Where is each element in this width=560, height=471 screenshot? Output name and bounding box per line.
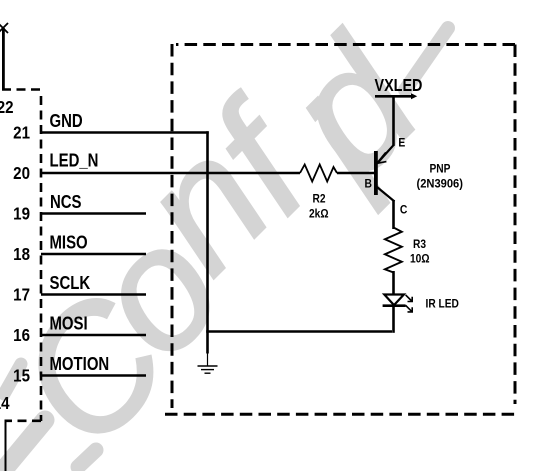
svg-text:18: 18 [13,244,30,265]
svg-text:IR LED: IR LED [426,298,459,311]
no-connect X on pin 22 wire [0,23,8,33]
ground symbol [198,353,218,373]
wire R2 to base [337,172,374,175]
svg-text:2kΩ: 2kΩ [309,208,329,221]
wire GND pin 21 horizontal [41,131,209,134]
wire LED cathode to bottom return [392,306,395,333]
IC U1 outline right edge (dashed) [40,96,43,421]
resistor R3 zigzag (vertical) [385,228,402,273]
svg-text:R2: R2 [313,193,326,206]
svg-text:PNP: PNP [430,163,451,176]
transistor Q1 PNP 2N3906 [374,145,395,202]
svg-text:20: 20 [13,163,30,184]
wire NCS pin 19 [41,212,146,215]
wire VXLED to emitter [392,96,395,146]
IR LED D1 (triangle + cathode bar) [383,295,406,306]
svg-text:B: B [365,178,373,191]
svg-text:15: 15 [13,365,30,386]
wire MOSI pin 16 [41,334,146,337]
svg-text:22: 22 [0,97,14,118]
svg-text:14: 14 [0,393,10,414]
wire MISO pin 18 [41,253,146,256]
svg-text:LED_N: LED_N [50,150,99,171]
svg-text:MOSI: MOSI [50,313,88,334]
wire MOTION pin 15 [41,374,146,377]
wire LED_N pin 20 to R2 [41,172,300,175]
watermark Confidential [0,0,560,1]
LED emission arrow 1 [406,295,413,302]
svg-text:VXLED: VXLED [375,76,423,96]
svg-text:MOTION: MOTION [50,354,110,375]
wire R3 to LED anode [392,271,395,295]
svg-text:E: E [398,137,405,150]
resistor R2 zigzag [300,165,337,182]
LED emission arrow 2 [406,305,413,312]
IC U1 outline top edge (dashed) [2,88,42,91]
wire SCLK pin 17 [41,293,146,296]
svg-text:19: 19 [13,203,30,224]
wire pin 22 vertical [2,28,5,90]
svg-text:21: 21 [13,122,30,143]
wire collector down to R3 [392,200,395,229]
IC U1 outline bottom edge (dashed) [5,419,42,422]
svg-text:GND: GND [50,111,83,132]
svg-text:C: C [400,204,408,217]
wire GND vertical down to ground [206,131,209,353]
svg-text:10Ω: 10Ω [410,253,430,266]
svg-text:16: 16 [13,325,30,346]
svg-text:(2N3906): (2N3906) [417,178,464,190]
VXLED power rail bar [375,93,417,99]
wire bottom return (LED cathode to ground node) [206,330,392,333]
svg-text:17: 17 [13,284,30,305]
svg-text:NCS: NCS [50,192,82,213]
IC U1 outline bottom-left edge going down [5,420,7,471]
svg-text:SCLK: SCLK [50,273,91,294]
svg-text:R3: R3 [413,238,426,251]
svg-text:MISO: MISO [50,232,88,253]
dashed enclosure box [165,44,516,414]
